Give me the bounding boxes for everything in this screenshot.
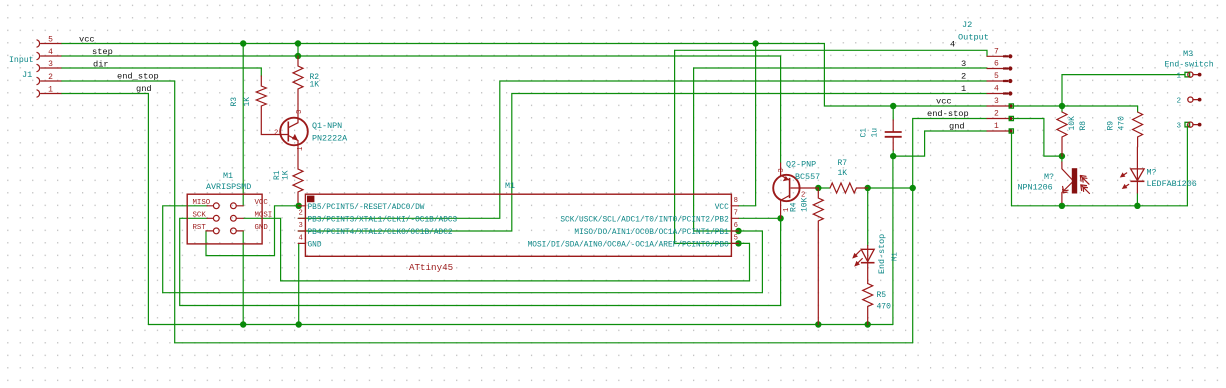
junction R8 bottom / end-stop: [1059, 153, 1065, 159]
svg-text:PB5/PCINT5/-RESET/ADC0/DW: PB5/PCINT5/-RESET/ADC0/DW: [308, 204, 425, 212]
svg-text:470: 470: [1118, 116, 1127, 131]
svg-text:1: 1: [48, 86, 53, 95]
programming header M1 AVRISPSMD: [187, 171, 272, 244]
svg-text:RST: RST: [193, 224, 207, 232]
svg-text:1: 1: [297, 147, 305, 151]
svg-text:5: 5: [734, 235, 738, 243]
svg-text:2: 2: [1177, 98, 1182, 106]
wire gnd rail: [148, 324, 893, 326]
svg-text:2: 2: [48, 73, 53, 82]
svg-text:3: 3: [296, 110, 304, 114]
svg-text:VCC: VCC: [255, 199, 269, 207]
wire end_stop drop to bottom rail: [174, 81, 176, 343]
switch M3 End-switch: [1165, 49, 1214, 131]
junction vcc/R2col: [295, 40, 301, 46]
svg-text:7: 7: [994, 48, 999, 57]
svg-text:J1: J1: [22, 70, 32, 80]
svg-text:GND: GND: [255, 224, 269, 232]
wire C1 bottom stub: [892, 150, 894, 156]
wire vcc jumper to rail: [297, 44, 299, 57]
svg-text:R7: R7: [838, 159, 848, 168]
svg-text:AVRISPSMD: AVRISPSMD: [206, 182, 251, 192]
svg-text:R5: R5: [877, 291, 887, 300]
connector J2: [958, 20, 1013, 133]
svg-text:NPN1206: NPN1206: [1018, 183, 1053, 193]
svg-text:gnd: gnd: [949, 122, 965, 132]
svg-text:3: 3: [48, 60, 53, 69]
junction Q2 base node R4/R7: [815, 185, 821, 191]
svg-text:2: 2: [274, 130, 278, 138]
svg-text:PN2222A: PN2222A: [312, 134, 348, 144]
svg-text:1: 1: [994, 122, 999, 131]
svg-text:2: 2: [299, 210, 303, 218]
wire net1 row IC pin3 to J2 pin4: [298, 94, 987, 232]
resistor R4: [790, 188, 824, 325]
wire net3 drop to IC pin6: [694, 68, 763, 231]
junction rail/R2: [295, 53, 301, 59]
wire net2 row IC pin2 to J2 pin5: [298, 81, 987, 218]
wire Q2 emitter rail drop: [780, 56, 782, 163]
wire LED FAB bottom stub: [1136, 193, 1138, 206]
wire MOSI riser to M1: [243, 218, 280, 281]
svg-text:4: 4: [299, 235, 303, 243]
junction R7 right / LED chain: [865, 185, 871, 191]
junction vcc / R8 top: [1059, 103, 1065, 109]
svg-text:2: 2: [994, 110, 999, 119]
wire gnd row: [62, 93, 149, 95]
wire SCK rail to IC pin7 node: [180, 218, 781, 305]
svg-text:3: 3: [778, 168, 786, 172]
svg-text:1K: 1K: [282, 170, 291, 180]
svg-text:6: 6: [994, 60, 999, 69]
wire RST bypass to IC pin1: [206, 206, 298, 256]
junction gnd rail / R4: [815, 321, 821, 327]
transistor Q2 BC557: [773, 160, 820, 219]
wire J2 pin1 gnd drop right: [1011, 131, 1013, 206]
svg-text:5: 5: [48, 36, 53, 45]
svg-text:vcc: vcc: [936, 97, 952, 107]
svg-text:3: 3: [1177, 123, 1182, 131]
svg-text:C1: C1: [860, 128, 869, 138]
svg-text:10K: 10K: [1068, 116, 1077, 131]
junction end-stop riser / R7 node: [910, 185, 916, 191]
junction C1 bottom / gnd: [890, 153, 896, 159]
svg-text:MOSI/DI/SDA/AIN0/OC0A/-OC1A/AR: MOSI/DI/SDA/AIN0/OC0A/-OC1A/AREF/PCINT0/…: [528, 241, 730, 249]
transistor Q1 PN2222A: [274, 104, 348, 169]
svg-text:PB4/PCINT4/XTAL2/CLKO/OC1B/ADC: PB4/PCINT4/XTAL2/CLKO/OC1B/ADC2: [308, 229, 453, 237]
junction vcc/R3col: [240, 40, 246, 46]
svg-text:Input: Input: [9, 56, 34, 65]
wire riser to M3 pin3: [1186, 125, 1188, 206]
svg-text:7: 7: [734, 210, 738, 218]
junction gnd rail / M1 GND: [240, 321, 246, 327]
svg-text:3: 3: [994, 97, 999, 106]
resistor R3: [230, 76, 287, 135]
wire NPN1206 top from end-stop node: [1061, 156, 1063, 162]
wire dir row: [62, 67, 261, 69]
wire vcc jog to J2 pin3: [824, 44, 987, 107]
wire net4 row to J2 pin7: [675, 50, 987, 56]
wire R8 top stub: [1061, 106, 1063, 112]
wire gnd drop to gnd rail: [147, 94, 149, 325]
svg-text:MOSI: MOSI: [255, 212, 273, 220]
wire IC pin6 to MISO rail: [163, 231, 763, 293]
svg-text:ATtiny45: ATtiny45: [409, 262, 453, 273]
wire net3 row to J2 pin6: [694, 67, 987, 69]
resistor R9: [1107, 112, 1143, 147]
junction C1 top / vcc: [890, 103, 896, 109]
resistor R1: [273, 169, 303, 203]
junction gnd rail / R5: [865, 321, 871, 327]
wire IC pin4 GND drop: [298, 243, 300, 324]
svg-text:3: 3: [961, 59, 966, 69]
svg-text:8: 8: [734, 197, 738, 205]
svg-text:MISO/DO/AIN1/OC0B/OC1A/PCINT1/: MISO/DO/AIN1/OC0B/OC1A/PCINT1/PB1: [574, 229, 729, 237]
wire end-stop node row R7 to J2 riser: [868, 187, 913, 189]
svg-text:1: 1: [1177, 73, 1182, 81]
junction gnd rail / IC pin4: [296, 321, 302, 327]
svg-text:LEDFAB1206: LEDFAB1206: [1147, 179, 1197, 189]
connector J1: [37, 40, 62, 97]
IC U1 ATtiny45: [298, 194, 738, 273]
svg-text:1K: 1K: [838, 169, 848, 178]
svg-text:1K: 1K: [310, 81, 320, 90]
wire gnd drop C1 to gnd rail: [892, 156, 894, 324]
svg-text:VCC: VCC: [715, 204, 729, 212]
svg-text:4: 4: [994, 85, 999, 94]
wire M3 pin1 to vcc node: [1062, 75, 1185, 106]
resistor R5: [863, 284, 891, 325]
svg-text:GND: GND: [308, 241, 322, 249]
svg-text:M1: M1: [892, 252, 900, 261]
svg-text:5: 5: [994, 72, 999, 81]
wire M1 GND drop: [242, 231, 244, 325]
svg-text:M?: M?: [1044, 172, 1054, 182]
svg-text:SCK/USCK/SCL/ADC1/T0/INT0/PCIN: SCK/USCK/SCL/ADC1/T0/INT0/PCINT2/PB2: [560, 216, 729, 224]
junction gnd / LED bottom: [1134, 203, 1140, 209]
wire R7 left stub from R4 node: [818, 187, 830, 189]
svg-text:end-stop: end-stop: [927, 109, 969, 119]
svg-text:end_stop: end_stop: [117, 72, 159, 82]
resistor R7: [830, 159, 868, 193]
svg-text:6: 6: [734, 222, 738, 230]
svg-text:M1: M1: [223, 171, 233, 181]
wire end-stop LED chain drop: [867, 188, 869, 246]
svg-text:Q2-PNP: Q2-PNP: [786, 160, 816, 170]
wire vcc drop to M1 VCC: [242, 44, 244, 206]
svg-text:End-switch: End-switch: [1165, 60, 1214, 70]
wire end-stop rail riser to J2 pin2: [913, 119, 987, 343]
svg-text:R8: R8: [1079, 121, 1088, 131]
wire net4 drop to IC pin5: [675, 50, 750, 243]
svg-text:Q1-NPN: Q1-NPN: [312, 121, 342, 131]
wire MISO riser to M1: [163, 206, 207, 293]
svg-text:M?: M?: [1147, 168, 1157, 178]
LED D1 end-stop indicator: [852, 246, 874, 284]
phototransistor M? NPN1206: [1018, 162, 1090, 203]
svg-text:1K: 1K: [243, 97, 252, 107]
wire vcc row: [62, 43, 825, 45]
LED M? LEDFAB1206: [1120, 147, 1197, 193]
svg-text:M3: M3: [1183, 49, 1193, 59]
junction Q2 collector / pin7 / SCK: [777, 215, 783, 221]
svg-text:BC557: BC557: [795, 172, 820, 182]
svg-text:R3: R3: [230, 97, 239, 107]
junction IC pin1 node: [296, 203, 302, 209]
resistor R2: [293, 56, 319, 104]
J1 pin numbers: [48, 36, 53, 95]
wire step/vcc rail row: [62, 55, 781, 57]
capacitor C1: [860, 120, 902, 150]
wire vcc row right segment J2 pin3 to R9: [1011, 105, 1137, 107]
svg-text:470: 470: [877, 303, 892, 312]
svg-text:gnd: gnd: [136, 84, 152, 94]
wire vcc drop to IC pin8: [739, 44, 756, 206]
svg-text:10K: 10K: [801, 197, 810, 212]
junction vcc/IC pin8 col: [752, 40, 758, 46]
svg-text:4: 4: [950, 40, 955, 50]
wire dir drop to R3: [260, 68, 262, 76]
wire C1 top stub: [892, 106, 894, 120]
wire R9 top drop: [1137, 106, 1139, 112]
svg-text:R9: R9: [1107, 121, 1116, 131]
resistor R8: [1057, 112, 1088, 156]
wire J2 pin2 to end-stop node: [1011, 119, 1062, 157]
svg-text:R4: R4: [790, 202, 799, 212]
svg-text:4: 4: [48, 48, 53, 57]
svg-text:End-stop: End-stop: [877, 234, 887, 274]
svg-text:PB3/PCINT3/XTAL1/CLKI/-OC1B/AD: PB3/PCINT3/XTAL1/CLKI/-OC1B/ADC3: [308, 216, 458, 224]
svg-text:1u: 1u: [871, 128, 880, 138]
svg-text:2: 2: [961, 72, 966, 82]
wire end-stop bottom rail: [175, 342, 913, 344]
wire SCK riser at Q2: [739, 218, 781, 305]
svg-text:3: 3: [299, 222, 303, 230]
junction IC pin6 tip: [735, 228, 741, 234]
wire Q2 collector to IC pin7 drop: [780, 218, 782, 230]
svg-text:M1: M1: [505, 181, 515, 191]
svg-text:1: 1: [961, 84, 966, 94]
junction IC pin5 tip: [735, 240, 741, 246]
junction gnd / phototransistor emitter: [1059, 203, 1065, 209]
svg-text:J2: J2: [962, 20, 972, 30]
wire gnd link C1 to J2 pin1: [893, 131, 987, 156]
svg-text:Output: Output: [958, 33, 989, 43]
wire gnd bottom rail right: [1012, 205, 1188, 207]
wire IC pin5 to MOSI rail: [281, 243, 750, 281]
wire end_stop row: [62, 80, 175, 82]
svg-text:SCK: SCK: [193, 212, 207, 220]
